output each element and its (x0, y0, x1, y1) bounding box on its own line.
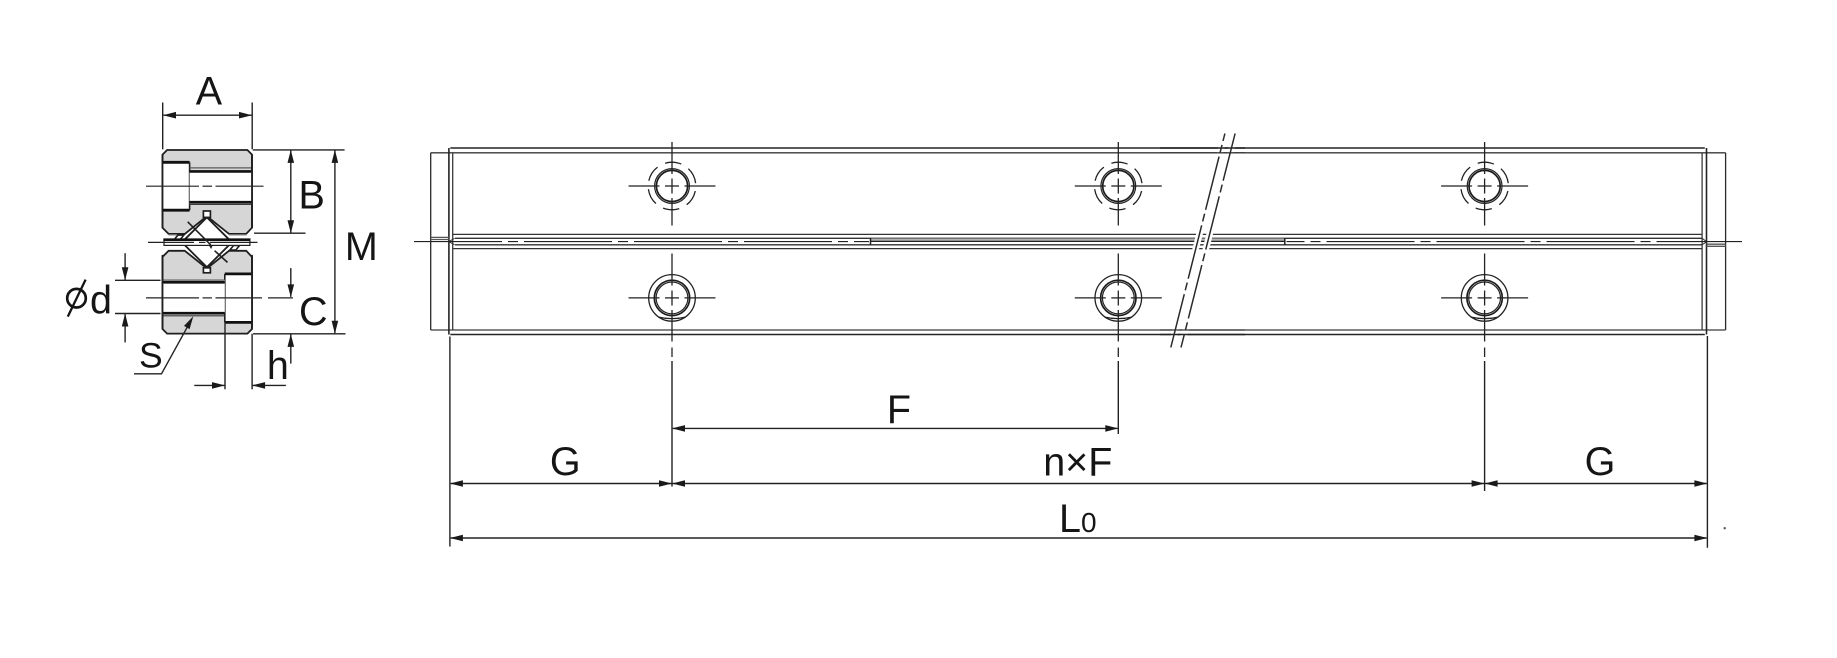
groove centerline (right of strip) (1287, 241, 1743, 243)
hole 3 top crosshair (1441, 142, 1528, 226)
dimension phi-d extension lines (115, 279, 161, 281)
dimension B bottom extension line (254, 232, 306, 234)
dimension B/M top extension line (253, 149, 345, 151)
break line 1 (1171, 134, 1225, 348)
S leader line with arrowhead (134, 327, 188, 374)
hole 3 bottom crosshair (1441, 254, 1528, 358)
rail 1 (top) body octagon with V-groove notch (163, 150, 253, 234)
dimension h line with outside arrows (194, 384, 224, 386)
svg-text:d: d (90, 278, 112, 322)
groove end convergence ticks (449, 238, 455, 241)
bottom rail counterbored hole 1 (649, 275, 696, 322)
extension line at left rail end (449, 337, 451, 547)
svg-text:G: G (1585, 440, 1616, 484)
svg-text:C: C (299, 290, 328, 334)
roller cross-section (square rotated 45) (182, 217, 232, 267)
V-groove lower outer line (453, 248, 1702, 250)
dimension M/C bottom extension line (253, 333, 346, 335)
rail top edge (450, 147, 1705, 149)
dimension L0 line with arrows (451, 537, 1707, 539)
extension line at right rail end (1706, 336, 1708, 548)
groove centerline (left of strip) (414, 241, 869, 243)
hole 2 top crosshair (1075, 142, 1162, 226)
svg-text:h: h (267, 344, 289, 388)
dimension C lower arrow (290, 334, 292, 363)
stray dot artifact (1724, 527, 1726, 529)
rail 2 threaded mounting hole (163, 280, 225, 313)
dimension phi-d outside arrows (124, 253, 126, 280)
rail top chamfer line (431, 152, 1726, 154)
svg-text:S: S (139, 336, 163, 376)
roller axis arrowhead below strip (209, 245, 213, 250)
dimension M line with arrows (334, 151, 336, 334)
bottom rail counterbored hole 3 (1461, 275, 1508, 322)
roller axis line upper segment (188, 222, 211, 245)
top rail threaded hole 1 (644, 158, 700, 214)
rail 2 hole centerline (146, 297, 199, 299)
cage strip in groove (side view) (871, 239, 1285, 242)
dimension A extension lines (162, 103, 164, 150)
hole 2 bottom crosshair (1075, 254, 1162, 358)
V-groove lower inner line (455, 244, 1702, 246)
V-groove upper outer line (453, 233, 1702, 235)
roller axis line lower segment (215, 251, 228, 263)
rail 1 threaded mounting hole (190, 171, 252, 204)
break line 2 (1181, 134, 1235, 348)
hole 1 top crosshair (629, 142, 716, 226)
hole 1 bottom crosshair (629, 254, 716, 358)
svg-text:B: B (299, 174, 325, 218)
dimension A line with arrows (164, 114, 252, 116)
top rail threaded hole 2 (1090, 158, 1146, 214)
svg-text:A: A (196, 70, 223, 114)
rail 2 (bottom) body octagon with V-groove notch (163, 251, 253, 334)
rail 1 counterbore recess (163, 162, 190, 210)
right end face (1725, 153, 1727, 330)
svg-text:n×F: n×F (1043, 440, 1112, 484)
extension line below hole 2 (1117, 361, 1119, 434)
left end face groove lines (431, 236, 449, 238)
crossed roller journal right (230, 245, 240, 250)
dimension C upper arrow (290, 268, 292, 297)
cage strip centerline (148, 241, 194, 243)
redraw rail edges over casing (1160, 147, 1245, 149)
svg-text:G: G (550, 440, 581, 484)
svg-text:M: M (345, 225, 378, 269)
label phi d (67, 280, 86, 317)
roller top journal square (203, 211, 210, 217)
extension line below hole 1 (671, 361, 673, 487)
V-groove upper inner line (455, 237, 1702, 239)
svg-text:F: F (887, 388, 911, 432)
dimension B line with arrows (290, 151, 292, 233)
top rail threaded hole 3 (1456, 158, 1512, 214)
dimension h extension lines (224, 323, 226, 390)
dimension F line with arrows (673, 427, 1118, 429)
dimension line G / nxF / G (451, 483, 1707, 485)
rail bottom chamfer line (431, 329, 1726, 331)
break line white casings (1171, 134, 1225, 348)
roller bottom journal square (203, 268, 210, 273)
crossed roller journal left (174, 235, 184, 240)
extension line below hole 3 (1484, 361, 1486, 491)
right end face groove lines (1707, 243, 1726, 245)
cage strip cross-section (164, 240, 250, 246)
left end face (430, 153, 432, 330)
rail 2 counterbore recess (225, 274, 252, 323)
rail 1 hole centerline (146, 185, 199, 187)
rail bottom edge (450, 334, 1705, 336)
bottom rail counterbored hole 2 (1095, 275, 1142, 322)
